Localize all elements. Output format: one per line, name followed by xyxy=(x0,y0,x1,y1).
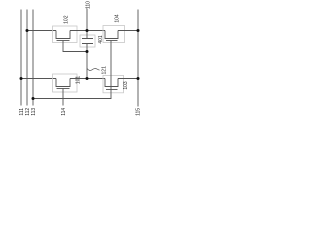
wire node 121 (gate of 102, cap bottom, down to mid wire) xyxy=(63,41,87,79)
junction mid wire / right line xyxy=(137,77,140,80)
junction top wire / right line xyxy=(137,29,140,32)
junction bus111 / mid wire xyxy=(20,77,23,80)
wire mid-left (bus 111 to transistor 101) xyxy=(21,78,56,80)
junction bus112/top wire xyxy=(26,29,29,32)
bus line 112 xyxy=(25,10,31,116)
transistor 103 xyxy=(103,75,129,92)
junction bus113 / bottom wire xyxy=(32,97,35,100)
svg-text:114: 114 xyxy=(61,108,67,116)
junction node121 / mid wire xyxy=(86,77,89,80)
wire mid-middle (101 to 103) xyxy=(70,78,105,80)
terminal 114 (gate lead of 101) xyxy=(61,89,67,116)
transistor 104 xyxy=(103,14,125,42)
capacitor 401 xyxy=(80,31,104,52)
svg-text:113: 113 xyxy=(31,108,37,116)
terminal 110 (top stub) xyxy=(86,1,92,31)
wire mid-right (103 to right line) xyxy=(118,78,138,80)
svg-text:101: 101 xyxy=(76,76,82,85)
wire gate net (bus 113 to gates of 104 and 103) xyxy=(33,41,111,99)
wire top-right (104 to right line) xyxy=(118,30,138,32)
svg-text:103: 103 xyxy=(123,81,129,90)
svg-text:110: 110 xyxy=(86,1,92,9)
wire top-middle (102 to 104) xyxy=(70,30,105,32)
node label 121 with leader xyxy=(87,66,108,75)
bus line 113 xyxy=(31,10,37,116)
terminal line 115 (right vertical) xyxy=(136,10,142,116)
junction cap top / top wire xyxy=(86,29,89,32)
svg-text:102: 102 xyxy=(64,15,70,24)
transistor 101 xyxy=(53,74,82,92)
svg-text:121: 121 xyxy=(102,66,108,75)
svg-text:401: 401 xyxy=(98,35,104,44)
svg-text:104: 104 xyxy=(114,14,120,23)
svg-text:115: 115 xyxy=(136,108,142,116)
junction gate102 wire / cap bottom xyxy=(86,50,89,53)
wire top-left (bus 112 to transistor 102) xyxy=(27,30,56,32)
bus line 111 xyxy=(19,10,25,116)
transistor 102 xyxy=(53,15,78,42)
